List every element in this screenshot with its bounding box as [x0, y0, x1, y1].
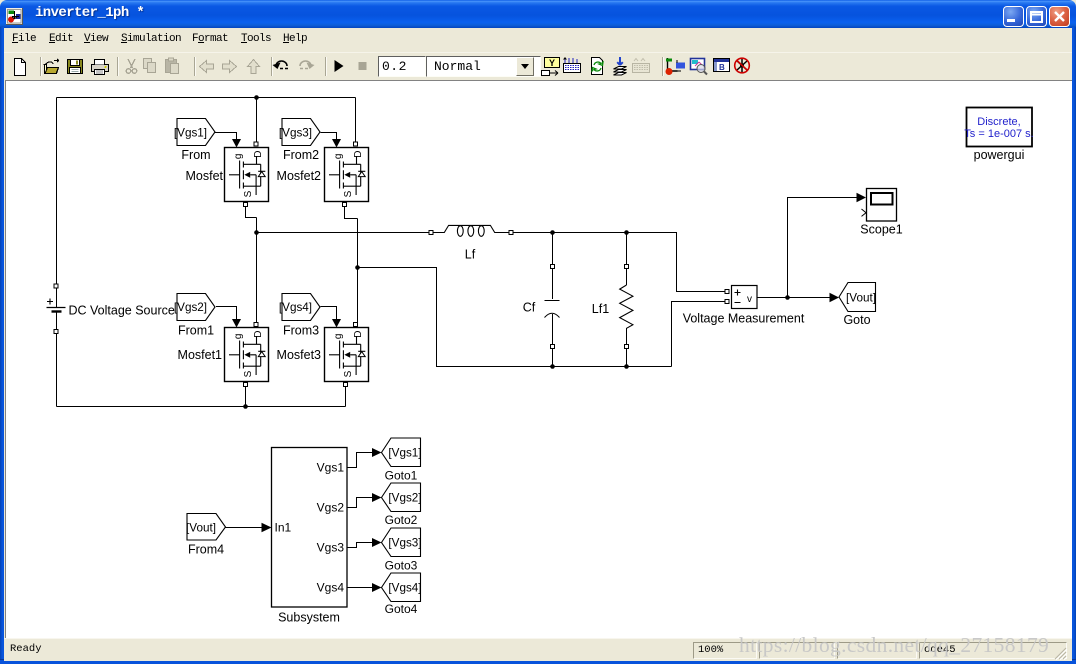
port Mosfet2 S	[343, 203, 347, 207]
junction node B	[355, 265, 360, 270]
svg-text:powergui: powergui	[974, 148, 1025, 162]
node From tag Vgs2	[174, 294, 215, 321]
up arrow (disabled)	[248, 60, 260, 74]
port Lf right	[509, 231, 513, 235]
wire Mosfet source jog to node A	[246, 207, 257, 218]
junction node C	[785, 295, 790, 300]
wire From Vgs1 to Mosfet gate	[215, 133, 237, 140]
port Cf top	[551, 265, 555, 269]
wire bottom DC- rail	[57, 406, 346, 408]
wire From3 Vgs4 to Mosfet3 gate	[321, 307, 337, 320]
new document icon	[15, 59, 26, 76]
svg-text:[Vgs4]: [Vgs4]	[388, 582, 421, 595]
wire node C up to Scope1	[788, 198, 858, 298]
csdn watermark	[739, 633, 1076, 658]
wire Subsystem Vgs3 to Goto3	[348, 543, 373, 548]
wire Cf upper lead	[552, 269, 554, 299]
stop button (disabled)	[359, 62, 367, 70]
svg-text:Scope1: Scope1	[860, 223, 902, 237]
toolbar	[4, 52, 1072, 81]
sim: update diagram icon	[592, 58, 603, 75]
wire battery top lead	[56, 288, 58, 307]
svg-text:[Vout]: [Vout]	[846, 292, 876, 305]
arrowhead into Goto2	[372, 493, 382, 502]
wire Voltage Measurement output to node C	[758, 297, 788, 299]
model browser icon	[714, 59, 730, 72]
back arrow (disabled)	[200, 61, 214, 73]
svg-text:Goto3: Goto3	[385, 559, 418, 573]
svg-text:[Vgs2]: [Vgs2]	[174, 301, 207, 314]
port Lf1 top	[625, 265, 629, 269]
wire Lf1 bottom branch	[626, 349, 628, 367]
port Voltage Measurement +	[725, 290, 729, 294]
svg-text:Voltage Measurement: Voltage Measurement	[683, 312, 805, 326]
port Lf left	[429, 231, 433, 235]
sim: output Y icon	[545, 58, 560, 68]
svg-text:Vgs4: Vgs4	[317, 581, 345, 595]
node Goto2 tag Vgs2	[382, 483, 422, 512]
svg-text:Discrete,: Discrete,	[977, 116, 1020, 128]
wire Subsystem Vgs2 to Goto2	[348, 498, 373, 508]
port Mosfet3 S	[344, 383, 348, 387]
menu bar	[4, 28, 1072, 52]
application icon	[6, 8, 23, 25]
wire From4 Vout to Subsystem In1	[226, 527, 263, 529]
svg-text:Goto2: Goto2	[385, 513, 418, 527]
svg-text:[Vgs4]: [Vgs4]	[279, 301, 312, 314]
arrowhead into Goto3	[372, 538, 382, 547]
svg-text:[Vgs1]: [Vgs1]	[174, 127, 207, 140]
wire Lf to Voltage Measurement plus	[514, 233, 725, 292]
svg-text:Mosfet3: Mosfet3	[277, 348, 322, 362]
junction node bottom rail / Mosfet1 source	[243, 404, 248, 409]
svg-text:From2: From2	[283, 148, 319, 162]
svg-text:[Vgs1]: [Vgs1]	[388, 447, 421, 460]
node From tag Vout	[186, 514, 225, 541]
arrowhead into Mosfet3 gate	[332, 319, 341, 328]
wire Cf lower lead	[552, 314, 554, 344]
junction node bottom / Cf	[550, 364, 555, 369]
inductor Lf	[434, 225, 509, 236]
window buttons	[1003, 6, 1024, 27]
wire Lf1 upper lead	[626, 269, 628, 285]
svg-text:[Vgs3]: [Vgs3]	[388, 537, 421, 550]
junction node bottom / Lf1	[624, 364, 629, 369]
wire node B vertical to Mosfet3 drain	[357, 219, 359, 323]
arrowhead into Scope1	[857, 193, 867, 202]
svg-text:Lf: Lf	[465, 248, 476, 262]
svg-text:Subsystem: Subsystem	[278, 611, 340, 625]
wire rail B across	[358, 268, 672, 367]
node Goto4 tag Vgs4	[382, 573, 422, 602]
junction node top rail / Mosfet drain	[254, 95, 259, 100]
node Goto tag Vout	[839, 283, 876, 312]
port Mosfet1 D	[254, 323, 258, 327]
wire battery to bottom rail	[56, 334, 58, 407]
node From tag Vgs3	[279, 119, 320, 146]
battery V1 DC Voltage Source	[47, 299, 66, 312]
wire top DC+ rail	[57, 97, 356, 99]
wire Mosfet3 source drop	[345, 387, 347, 407]
arrowhead into Subsystem In1	[262, 523, 272, 532]
wire From1 Vgs2 to Mosfet1 gate	[216, 307, 237, 320]
block Scope1	[862, 189, 897, 222]
sim: library stack icon	[614, 67, 627, 76]
paste icon (disabled)	[166, 60, 177, 73]
svg-text:Cf: Cf	[523, 301, 536, 315]
arrowhead into Goto Vout	[830, 293, 840, 302]
node Goto1 tag Vgs1	[382, 438, 422, 467]
svg-text:DC Voltage Source: DC Voltage Source	[69, 304, 175, 318]
wire Mosfet drain to top rail	[256, 98, 258, 142]
sim: build grid icon	[565, 58, 577, 63]
svg-text:[Vgs3]: [Vgs3]	[279, 127, 312, 140]
undo icon	[276, 61, 287, 66]
arrowhead into Mosfet1 gate	[232, 319, 241, 328]
svg-text:[Vout]: [Vout]	[186, 522, 216, 535]
capacitor Cf	[545, 301, 560, 318]
svg-text:Goto4: Goto4	[385, 602, 418, 616]
wire node A vertical to Mosfet1 drain	[256, 218, 258, 323]
svg-text:Vgs1: Vgs1	[317, 461, 345, 475]
save floppy icon	[68, 60, 83, 74]
wire battery bottom lead	[56, 312, 58, 330]
port DC Voltage Source -	[54, 330, 58, 334]
status bar	[4, 638, 1072, 661]
debug icon	[737, 59, 747, 72]
play button	[335, 60, 344, 72]
port Mosfet1 S	[244, 383, 248, 387]
svg-text:Mosfet2: Mosfet2	[277, 169, 322, 183]
wire Lf1 top branch	[626, 233, 628, 265]
arrowhead into Mosfet2 gate	[332, 139, 341, 148]
wire left bus from rail to battery +	[56, 98, 58, 284]
transistor Mosfet3	[325, 328, 369, 382]
window title bar	[0, 0, 1076, 28]
node From tag Vgs4	[279, 294, 320, 321]
resistor Lf1	[620, 285, 633, 328]
wire Subsystem Vgs4 to Goto4	[348, 587, 373, 589]
node Goto3 tag Vgs3	[382, 528, 422, 557]
forward arrow (disabled)	[223, 61, 237, 73]
svg-text:From: From	[181, 148, 210, 162]
arrowhead into Mosfet gate	[232, 139, 241, 148]
block powergui	[964, 108, 1033, 147]
svg-text:From4: From4	[188, 543, 224, 557]
svg-text:Goto: Goto	[843, 313, 870, 327]
svg-text:From1: From1	[178, 324, 214, 338]
svg-text:Ts = 1e-007 s.: Ts = 1e-007 s.	[964, 128, 1033, 140]
port Mosfet S	[244, 203, 248, 207]
junction node rail A / Cf	[550, 230, 555, 235]
wire Cf top branch	[552, 233, 554, 265]
svg-text:Goto1: Goto1	[385, 469, 418, 483]
svg-text:In1: In1	[275, 521, 292, 535]
wire From2 Vgs3 to Mosfet2 gate	[321, 133, 337, 140]
port Mosfet D	[254, 142, 258, 146]
wire Mosfet2 source jog to node B	[345, 207, 358, 219]
port Mosfet3 D	[354, 323, 358, 327]
svg-text:Mosfet1: Mosfet1	[178, 348, 223, 362]
svg-text:Vgs3: Vgs3	[317, 541, 345, 555]
find in model icon	[691, 59, 705, 70]
junction node rail A / Lf1	[624, 230, 629, 235]
sim: disabled grid icon	[634, 59, 645, 62]
wire Subsystem Vgs1 to Goto1	[348, 453, 373, 468]
wire node C to Goto Vout	[788, 297, 830, 299]
redo icon (disabled)	[300, 61, 311, 66]
wire Mosfet2 drain to top rail	[355, 98, 357, 142]
arrowhead into Goto1	[372, 448, 382, 457]
port DC Voltage Source +	[54, 284, 58, 288]
transistor Mosfet1	[225, 328, 269, 382]
wire bottom rail to Voltage Measurement minus	[672, 302, 725, 367]
transistor Mosfet2	[325, 148, 369, 202]
cut icon (disabled)	[128, 59, 135, 68]
svg-text:Vgs2: Vgs2	[317, 501, 345, 515]
svg-text:From3: From3	[283, 324, 319, 338]
print icon	[92, 65, 109, 72]
open folder icon	[44, 65, 59, 74]
svg-text:Lf1: Lf1	[592, 302, 609, 316]
node From tag Vgs1	[174, 119, 215, 146]
port Mosfet2 D	[354, 142, 358, 146]
svg-text:v: v	[747, 294, 752, 305]
wire Lf1 lower lead	[626, 328, 628, 344]
copy icon (disabled)	[144, 59, 152, 69]
svg-text:Mosfet: Mosfet	[185, 169, 223, 183]
port Lf1 bottom	[625, 345, 629, 349]
wire rail A to Lf	[257, 232, 429, 234]
wire Cf bottom branch	[552, 349, 554, 367]
port Cf bottom	[551, 345, 555, 349]
wire Mosfet1 source drop	[245, 387, 247, 407]
port Voltage Measurement -	[725, 300, 729, 304]
block Voltage Measurement U1	[732, 286, 758, 309]
arrowhead into Goto4	[372, 583, 382, 592]
library browser icon	[668, 58, 678, 71]
junction node A	[254, 230, 259, 235]
transistor Mosfet	[225, 148, 269, 202]
block Subsystem U2	[272, 448, 348, 608]
svg-text:[Vgs2]: [Vgs2]	[388, 492, 421, 505]
